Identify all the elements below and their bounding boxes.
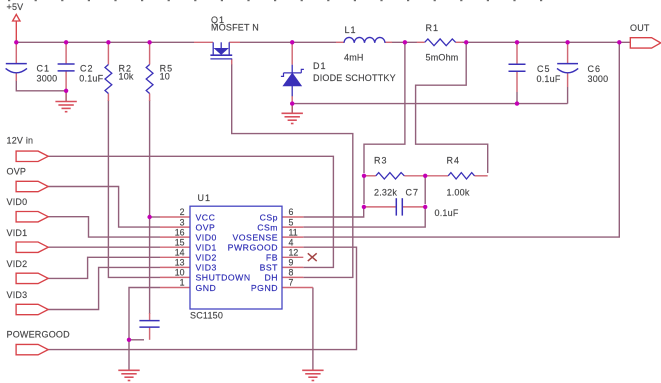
- wire R1 right to OUT: [462, 41, 630, 43]
- pin stub C1 bottom: [15, 74, 17, 82]
- svg-text:VOSENSE: VOSENSE: [232, 232, 278, 242]
- wire CSm: [303, 207, 425, 227]
- node R1 left junction: [403, 40, 407, 44]
- resistor R2: [105, 65, 112, 94]
- wire VID1 straight: [48, 246, 160, 248]
- node R3 left junction: [362, 174, 366, 178]
- wire C5 bottom lead: [516, 92, 518, 104]
- svg-text:DIODE SCHOTTKY: DIODE SCHOTTKY: [313, 73, 396, 83]
- pin stub D1 bottom: [291, 96, 293, 103]
- svg-text:C2: C2: [80, 64, 94, 74]
- wire R2 to SHUTDOWN: [108, 100, 160, 277]
- pin stub U1 VCC: [160, 216, 190, 218]
- wire VCC tap: [150, 216, 160, 218]
- svg-text:R4: R4: [447, 156, 461, 166]
- pin stub U1 VID0: [160, 236, 190, 238]
- svg-text:12V in: 12V in: [7, 136, 34, 146]
- no-connect X on FB pin 12: [308, 253, 317, 261]
- svg-text:CSp: CSp: [260, 212, 278, 222]
- svg-text:2: 2: [180, 207, 185, 217]
- pin stub C8 bottom: [149, 328, 151, 340]
- svg-text:VID0: VID0: [7, 197, 28, 207]
- svg-text:0.1uF: 0.1uF: [79, 73, 103, 83]
- svg-text:12: 12: [289, 248, 299, 258]
- svg-text:VCC: VCC: [196, 212, 216, 222]
- port connector POWERGOOD: [16, 344, 48, 354]
- node D1 ground junction: [290, 101, 294, 105]
- wire 12V to BST: [48, 156, 333, 267]
- svg-text:U1: U1: [198, 193, 212, 203]
- svg-text:R3: R3: [374, 156, 388, 166]
- svg-text:DH: DH: [264, 273, 278, 283]
- wire VID0 step: [48, 217, 160, 237]
- inductor L1: [344, 37, 385, 42]
- node GND C8 junction: [127, 338, 131, 342]
- transistor Q1: [210, 42, 232, 59]
- svg-text:CSm: CSm: [257, 222, 278, 232]
- port connector OUT: [630, 38, 660, 48]
- capacitor C7: [396, 198, 402, 215]
- svg-text:BST: BST: [260, 263, 279, 273]
- pin stub C8 top: [149, 313, 151, 320]
- capacitor C2: [58, 64, 75, 71]
- svg-text:FB: FB: [266, 253, 278, 263]
- svg-text:OUT: OUT: [630, 23, 650, 33]
- svg-text:9: 9: [289, 258, 294, 268]
- decor top cropped text row: [8, 0, 542, 1]
- svg-text:11: 11: [289, 227, 298, 237]
- pin stub C1 top: [15, 42, 17, 63]
- wire C8 bottom to GND node: [129, 339, 144, 341]
- svg-text:5: 5: [289, 217, 294, 227]
- pin stub R3 left: [364, 175, 376, 177]
- svg-text:POWERGOOD: POWERGOOD: [7, 329, 71, 339]
- node VCC junction: [147, 215, 151, 219]
- svg-text:8: 8: [289, 268, 294, 278]
- pin stub Q1 drain: [194, 41, 213, 43]
- svg-text:6: 6: [289, 207, 294, 217]
- svg-text:R1: R1: [426, 23, 440, 33]
- svg-text:L1: L1: [345, 25, 357, 35]
- wire R1 right sense to R4: [416, 42, 488, 173]
- wire R1 left sense to R3: [364, 42, 405, 173]
- node C6 top junction: [565, 40, 569, 44]
- wire VID3 step: [48, 267, 160, 309]
- wire ground rail bottom: [292, 103, 567, 105]
- svg-text:1: 1: [180, 278, 185, 288]
- wire VID2 step: [48, 257, 160, 278]
- svg-text:C1: C1: [37, 64, 51, 74]
- svg-text:10: 10: [175, 268, 185, 278]
- wire R3 R4 junction down: [424, 176, 426, 204]
- svg-text:10: 10: [160, 72, 170, 82]
- pin stub U1 SHUTDOWN: [160, 276, 190, 278]
- ground under PGND: [302, 370, 323, 380]
- wire switch node rail: [240, 41, 336, 43]
- svg-text:3000: 3000: [37, 73, 58, 83]
- node C5 top junction: [515, 40, 519, 44]
- svg-text:2.32k: 2.32k: [374, 188, 397, 198]
- ground under C2: [55, 91, 76, 112]
- pin stub U1 VID1: [160, 246, 190, 248]
- port connector VID3: [16, 304, 48, 314]
- svg-text:D1: D1: [313, 61, 327, 71]
- node OUT junction: [617, 40, 621, 44]
- node C2 rail junction: [64, 40, 68, 44]
- svg-text:+5V: +5V: [7, 2, 24, 12]
- pin stub U1 VID3: [160, 266, 190, 268]
- node C7 right junction: [423, 205, 427, 209]
- svg-text:1.00k: 1.00k: [447, 188, 470, 198]
- pin stub U1 GND: [160, 287, 190, 289]
- ground under C8 GND: [118, 370, 139, 380]
- svg-text:15: 15: [175, 237, 185, 247]
- svg-text:C5: C5: [537, 64, 551, 74]
- wire +5V rail left: [16, 41, 194, 43]
- pin stub R2 top: [107, 42, 109, 64]
- wire Q1 gate to DH: [232, 64, 353, 277]
- pin stub U1 OVP: [160, 226, 190, 228]
- svg-text:10k: 10k: [119, 72, 134, 82]
- pin stub U1 FB: [282, 256, 303, 258]
- wire C1 bottom L: [16, 80, 66, 91]
- port connector VID0: [16, 212, 48, 222]
- pin stub U1 VOSENSE: [282, 236, 303, 238]
- node C5 bottom junction: [515, 101, 519, 105]
- capacitor C1: [6, 64, 27, 73]
- wire CSp: [303, 207, 363, 217]
- svg-text:3: 3: [180, 217, 185, 227]
- pin stub U1 VID2: [160, 256, 190, 258]
- svg-text:4: 4: [289, 237, 294, 247]
- svg-text:4mH: 4mH: [344, 53, 364, 63]
- svg-text:14: 14: [175, 248, 185, 258]
- port connector VID2: [16, 273, 48, 283]
- pin stub R2 bottom: [107, 94, 109, 102]
- power symbol +5V: [13, 14, 20, 42]
- resistor R5: [146, 65, 153, 94]
- node C1 C2 ground junction: [64, 89, 68, 93]
- resistor R3: [376, 173, 405, 179]
- pin stub L1 left: [336, 41, 344, 43]
- svg-text:VID1: VID1: [196, 242, 217, 252]
- wire C6 bottom lead: [567, 87, 569, 104]
- port connector OVP: [16, 181, 48, 191]
- wire PWRGOOD to POWERGOOD: [48, 247, 356, 349]
- pin stub C6 bottom: [567, 74, 569, 88]
- pin stub R1 left: [417, 41, 425, 43]
- svg-text:OVP: OVP: [196, 222, 216, 232]
- svg-text:VID3: VID3: [196, 263, 217, 273]
- resistor R1: [425, 39, 456, 46]
- pin stub Q1 gate: [231, 59, 233, 65]
- wire PGND to ground: [312, 288, 314, 370]
- capacitor C6: [557, 64, 578, 73]
- pin stub U1 DH: [282, 276, 303, 278]
- svg-text:MOSFET N: MOSFET N: [211, 23, 259, 33]
- capacitor C8: [139, 321, 159, 328]
- svg-text:PWRGOOD: PWRGOOD: [228, 242, 278, 252]
- svg-text:VID2: VID2: [7, 259, 28, 269]
- svg-text:0.1uF: 0.1uF: [537, 74, 561, 84]
- wire R3 left down: [363, 176, 365, 204]
- svg-text:16: 16: [175, 227, 185, 237]
- resistor R4: [448, 173, 474, 179]
- op-chip U1 SC1150 box: [190, 206, 282, 309]
- wire GND pin to ground: [129, 288, 160, 370]
- svg-text:3000: 3000: [588, 74, 609, 84]
- node R2 rail junction: [106, 40, 110, 44]
- svg-text:SC1150: SC1150: [190, 310, 223, 320]
- ground under D1: [282, 103, 303, 123]
- svg-text:VID2: VID2: [196, 253, 217, 263]
- svg-text:13: 13: [175, 258, 185, 268]
- node R3 R4 junction: [423, 174, 427, 178]
- pin stub C7 right: [403, 206, 425, 208]
- node R5 rail junction: [147, 40, 151, 44]
- wire OVP step: [48, 187, 160, 228]
- pin stub C5 top: [516, 42, 518, 64]
- node +5V C1 junction: [14, 40, 18, 44]
- svg-text:0.1uF: 0.1uF: [435, 208, 459, 218]
- pin stub U1 PWRGOOD: [282, 246, 303, 248]
- pin stub R5 top: [149, 42, 151, 64]
- node C7 left junction: [362, 205, 366, 209]
- pin stub R5 bottom: [149, 94, 151, 102]
- svg-text:VID0: VID0: [196, 232, 217, 242]
- pin stub U1 PGND: [282, 287, 313, 289]
- wire VOSENSE to OUT: [303, 42, 619, 237]
- port connector VID1: [16, 242, 48, 252]
- node D1 switch junction: [290, 40, 294, 44]
- pin stub C7 left: [364, 206, 396, 208]
- pin stub C6 top: [567, 42, 569, 63]
- pin stub R1 right: [456, 41, 463, 43]
- svg-text:5mOhm: 5mOhm: [426, 53, 459, 63]
- pin stub D1 top: [291, 42, 293, 64]
- wire inductor to R1: [392, 41, 418, 43]
- pin stub Q1 source: [229, 41, 240, 43]
- svg-text:OVP: OVP: [7, 167, 27, 177]
- wire R5 to VCC and C8: [149, 100, 151, 314]
- pin stub U1 CSm: [282, 226, 303, 228]
- pin stub L1 right: [385, 41, 392, 43]
- pin stub U1 BST: [282, 266, 303, 268]
- pin stub C2 top: [65, 42, 67, 63]
- pin stub R4 left: [425, 175, 448, 177]
- diode D1 schottky: [281, 65, 304, 97]
- svg-text:7: 7: [289, 278, 294, 288]
- svg-text:C7: C7: [406, 188, 420, 198]
- pin stub C2 bottom: [65, 71, 67, 90]
- pin stub U1 CSp: [282, 216, 303, 218]
- svg-text:C6: C6: [588, 64, 602, 74]
- pin stub C5 bottom: [516, 72, 518, 92]
- capacitor C5: [509, 64, 526, 71]
- svg-text:VID3: VID3: [7, 290, 28, 300]
- svg-text:GND: GND: [196, 283, 217, 293]
- node R1 right junction: [464, 40, 468, 44]
- pin stub R4 right: [475, 175, 488, 177]
- svg-text:SHUTDOWN: SHUTDOWN: [196, 273, 251, 283]
- svg-text:PGND: PGND: [251, 283, 278, 293]
- pin stub R3 right: [404, 175, 425, 177]
- svg-text:VID1: VID1: [7, 228, 28, 238]
- port connector 12V in: [16, 151, 48, 161]
